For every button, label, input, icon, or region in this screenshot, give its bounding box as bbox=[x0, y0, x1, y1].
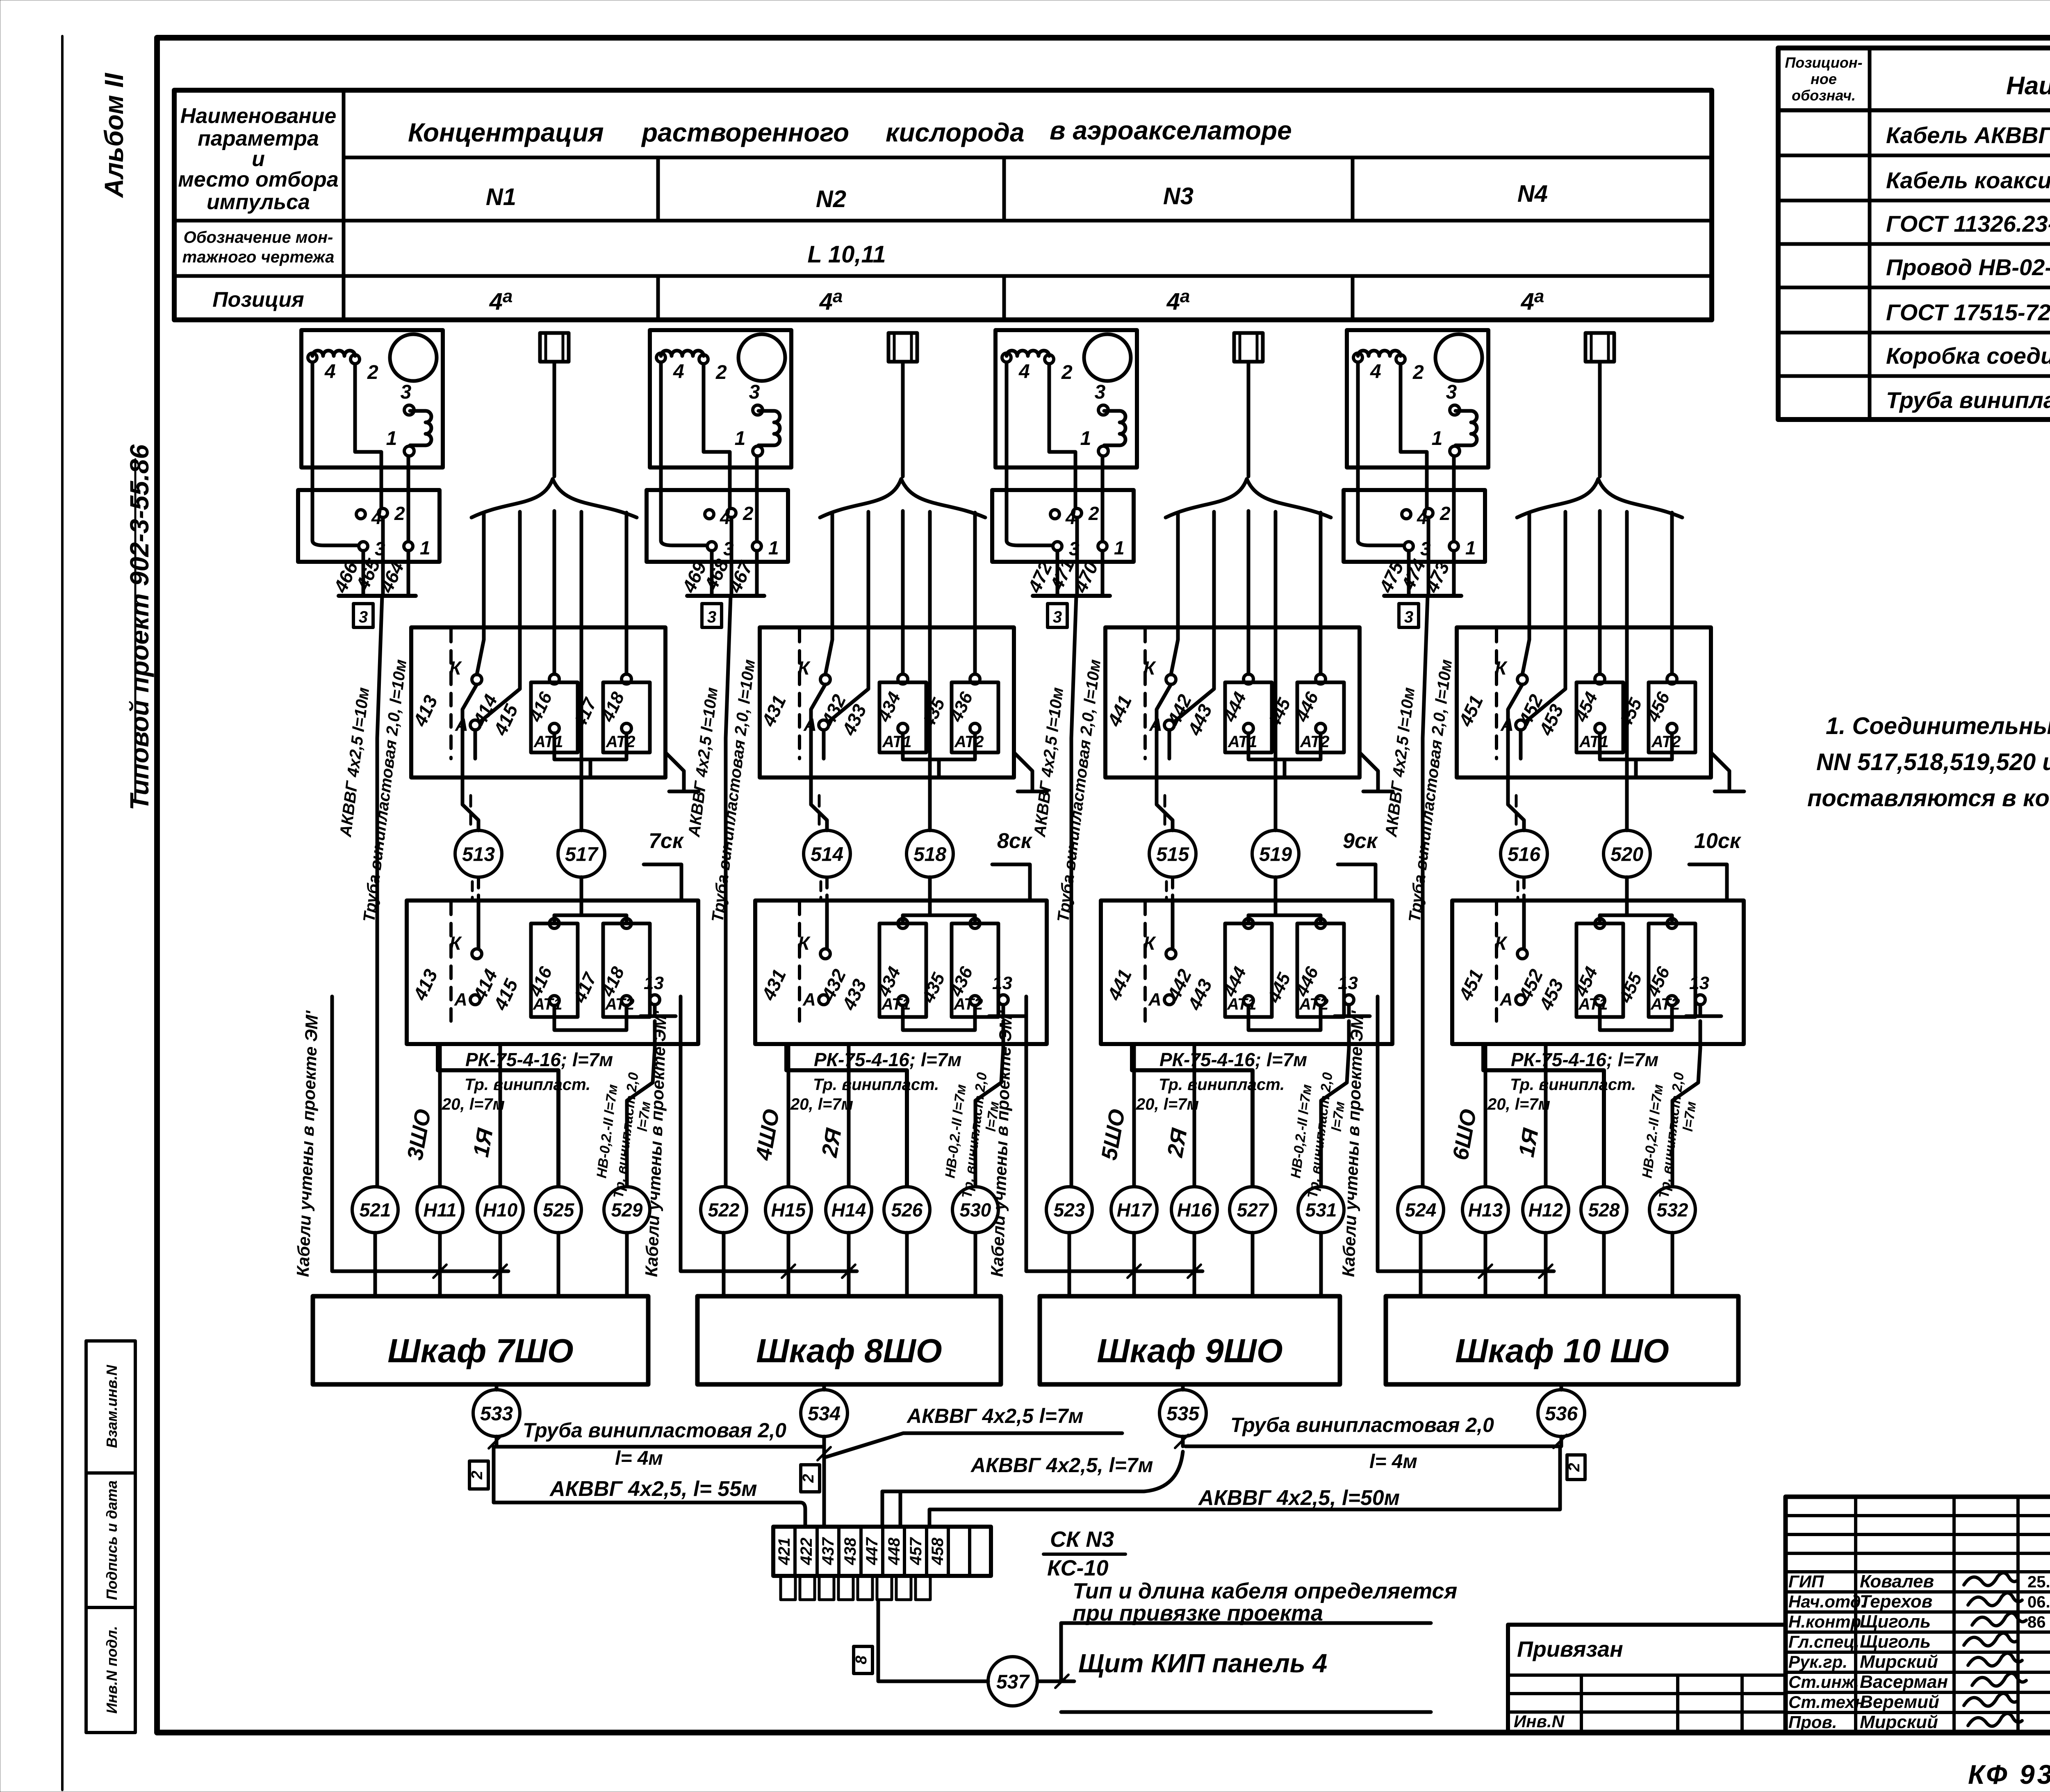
svg-text:Позиция: Позиция bbox=[212, 288, 304, 312]
svg-text:Н17: Н17 bbox=[1117, 1199, 1153, 1221]
svg-text:место отбора: место отбора bbox=[178, 168, 338, 192]
svg-text:растворенного: растворенного bbox=[641, 118, 849, 147]
marker box 3 bbox=[1399, 604, 1419, 627]
svg-text:Кабели учтены в проекте ЭМ': Кабели учтены в проекте ЭМ' bbox=[987, 1010, 1016, 1277]
wire to 529 bbox=[627, 1021, 655, 1186]
svg-text:N1: N1 bbox=[486, 184, 516, 210]
wire to 525 coax bbox=[438, 1044, 558, 1186]
svg-text:518: 518 bbox=[913, 844, 946, 865]
svg-text:1Я: 1Я bbox=[469, 1126, 498, 1159]
wire 467 bbox=[755, 551, 759, 596]
internal wires upper box bbox=[1157, 684, 1171, 777]
svg-text:Кабели учтены в проекте ЭМ': Кабели учтены в проекте ЭМ' bbox=[293, 1010, 322, 1277]
indicator 514 bbox=[804, 830, 850, 877]
relay AT1 lower bbox=[1225, 923, 1272, 1017]
wire K path lower bbox=[825, 901, 829, 949]
box pin 3 bbox=[359, 542, 368, 551]
wire K path lower bbox=[1171, 901, 1175, 949]
sensor terminal 4 bbox=[1353, 353, 1362, 362]
connector box 10ск upper bbox=[1457, 627, 1711, 777]
svg-text:РК-75-4-16; l=7м: РК-75-4-16; l=7м bbox=[1511, 1049, 1658, 1070]
sensor terminal 1 bbox=[1450, 446, 1460, 456]
svg-text:422: 422 bbox=[797, 1538, 815, 1566]
relay AT1 upper bbox=[531, 682, 578, 752]
internal wires upper box bbox=[462, 684, 477, 777]
internal wires upper box bbox=[1508, 684, 1522, 777]
svg-text:1Я: 1Я bbox=[1514, 1126, 1543, 1159]
wire cabinet to 536 bbox=[1560, 1384, 1563, 1390]
wire to earth tee bbox=[1711, 752, 1729, 791]
svg-text:РК-75-4-16; l=7м: РК-75-4-16; l=7м bbox=[465, 1049, 613, 1070]
wire to 532 bbox=[1672, 1021, 1700, 1186]
svg-text:Кабель АКВВГ4х2,5, ГОСТ 1508: Кабель АКВВГ4х2,5, ГОСТ 1508-78 bbox=[1886, 122, 2050, 148]
svg-text:импульса: импульса bbox=[207, 190, 310, 214]
title block signatures table bbox=[1786, 1497, 2050, 1733]
wire to Н12 bbox=[1544, 1044, 1548, 1186]
wire 464 bbox=[407, 551, 410, 596]
sensor coil winding bbox=[661, 351, 704, 356]
wire 441 dashed bbox=[1143, 629, 1147, 759]
svg-text:Типовой проект 902-3-55.86: Типовой проект 902-3-55.86 bbox=[125, 445, 154, 811]
svg-text:Щиголь: Щиголь bbox=[1860, 1632, 1931, 1652]
junction box of sensor N3 bbox=[992, 490, 1134, 562]
wire 527 to cabinet bbox=[1251, 1233, 1255, 1296]
cable spread brace bbox=[820, 479, 985, 518]
svg-text:Провод НВ-02-II-500: Провод НВ-02-II-500 bbox=[1886, 254, 2050, 280]
svg-text:ГОСТ 11326.23-79: ГОСТ 11326.23-79 bbox=[1886, 211, 2050, 237]
wire cabinet to 534 bbox=[822, 1384, 826, 1390]
sensor meter dial bbox=[390, 334, 437, 381]
svg-text:527: 527 bbox=[1237, 1199, 1269, 1221]
wire 529 to cabinet bbox=[625, 1233, 629, 1296]
svg-text:2: 2 bbox=[1440, 503, 1451, 524]
indicator 526 bbox=[884, 1187, 930, 1233]
wire 474 bbox=[1427, 518, 1430, 596]
wire drop 2 bbox=[829, 512, 868, 722]
svg-text:20, l=7м: 20, l=7м bbox=[1487, 1095, 1550, 1113]
wire 532 to cabinet bbox=[1671, 1233, 1674, 1296]
box pin 2 bbox=[1073, 508, 1082, 518]
svg-text:521: 521 bbox=[360, 1199, 391, 1221]
svg-text:2Я: 2Я bbox=[1163, 1126, 1192, 1159]
sensor terminal 1 bbox=[753, 446, 763, 456]
svg-text:413: 413 bbox=[409, 692, 442, 730]
svg-text:529: 529 bbox=[611, 1199, 643, 1221]
svg-text:3: 3 bbox=[1095, 381, 1106, 403]
wire Н13 to cabinet bbox=[1484, 1233, 1487, 1296]
svg-text:3ШО: 3ШО bbox=[403, 1107, 436, 1162]
svg-text:533: 533 bbox=[480, 1403, 513, 1425]
svg-text:514: 514 bbox=[811, 844, 843, 865]
svg-text:А: А bbox=[1499, 989, 1513, 1010]
svg-text:Мирский: Мирский bbox=[1860, 1712, 1938, 1732]
svg-text:Ковалев: Ковалев bbox=[1860, 1571, 1934, 1591]
wire K path lower bbox=[1522, 901, 1526, 949]
box pin 4 bbox=[705, 510, 714, 519]
indicator 528 bbox=[1581, 1187, 1627, 1233]
wire drop 4 bbox=[928, 512, 932, 830]
svg-text:АКВВГ 4х2,5, l=7м: АКВВГ 4х2,5, l=7м bbox=[970, 1454, 1153, 1477]
internal wires upper box bbox=[811, 684, 825, 777]
junction box of sensor N4 bbox=[1344, 490, 1485, 562]
connection box 9ск lower bbox=[1101, 901, 1392, 1044]
wire to earth tee bbox=[1360, 752, 1378, 791]
svg-text:АТ2: АТ2 bbox=[1300, 733, 1330, 751]
svg-text:КФ 9390-02: КФ 9390-02 bbox=[1968, 1759, 2050, 1790]
svg-text:532: 532 bbox=[1657, 1199, 1688, 1221]
box pin 2 bbox=[1424, 508, 1433, 518]
svg-text:3: 3 bbox=[359, 608, 368, 626]
wire 517 to lower box bbox=[580, 877, 583, 915]
wire collector bar bbox=[1033, 594, 1110, 598]
sensor inner coil bbox=[1104, 411, 1125, 445]
svg-text:519: 519 bbox=[1259, 844, 1292, 865]
wire to 531 bbox=[1321, 1021, 1349, 1186]
wire 468 bbox=[730, 518, 733, 596]
wire cabinet to 533 bbox=[495, 1384, 499, 1390]
marker box 3 bbox=[1048, 604, 1067, 627]
svg-text:Подпись и дата: Подпись и дата bbox=[103, 1480, 120, 1600]
sensor inner coil bbox=[758, 411, 780, 445]
svg-text:КС-10: КС-10 bbox=[1047, 1556, 1109, 1580]
wire 534 drop bbox=[822, 1436, 826, 1527]
svg-text:РК-75-4-16; l=7м: РК-75-4-16; l=7м bbox=[814, 1049, 961, 1070]
wire sensor-4 to box pin 3 bbox=[1007, 363, 1052, 545]
wire drop 4 bbox=[1274, 512, 1278, 830]
svg-text:441: 441 bbox=[1103, 692, 1136, 730]
sensor terminal 3 bbox=[1098, 405, 1108, 415]
sheet edge line left bbox=[61, 36, 64, 1790]
svg-text:6ШО: 6ШО bbox=[1448, 1107, 1481, 1162]
wire 514 to lower box dashed bbox=[825, 877, 829, 901]
svg-text:1: 1 bbox=[1114, 537, 1125, 559]
svg-text:А: А bbox=[802, 989, 816, 1010]
svg-text:537: 537 bbox=[996, 1671, 1030, 1693]
wire collector bar bbox=[339, 594, 416, 598]
wire to Н14 bbox=[847, 1044, 851, 1186]
svg-text:451: 451 bbox=[1454, 966, 1487, 1003]
indicator 524 bbox=[1398, 1187, 1444, 1233]
rail cables noted in EM project bbox=[332, 996, 508, 1271]
svg-text:3: 3 bbox=[1404, 608, 1413, 626]
indicator Н17 bbox=[1111, 1187, 1157, 1233]
indicator 523 bbox=[1046, 1187, 1092, 1233]
svg-text:Наименование: Наименование bbox=[2006, 72, 2050, 100]
svg-text:435: 435 bbox=[918, 970, 949, 1006]
svg-text:Н14: Н14 bbox=[831, 1199, 866, 1221]
svg-text:АКВВГ 4х2,5 l=10м: АКВВГ 4х2,5 l=10м bbox=[1031, 686, 1067, 838]
svg-text:3: 3 bbox=[749, 381, 760, 403]
wire to 527 coax bbox=[1132, 1044, 1253, 1186]
wire 537 to panel bbox=[1037, 1680, 1074, 1683]
relay AT1 lower bbox=[1576, 923, 1623, 1017]
wire 536 drop bbox=[1560, 1436, 1563, 1446]
svg-text:Рук.гр.: Рук.гр. bbox=[1788, 1652, 1847, 1671]
indicator Н13 bbox=[1462, 1187, 1508, 1233]
wire collector bar bbox=[1384, 594, 1461, 598]
cabinet Шкаф 9ШО bbox=[1040, 1296, 1340, 1384]
wire to Н15 bbox=[787, 1044, 790, 1186]
wire to indicator 513 bbox=[462, 777, 478, 830]
privyazan table bbox=[1508, 1625, 1786, 1733]
svg-text:441: 441 bbox=[1103, 966, 1136, 1003]
internal wires lower box bbox=[1248, 915, 1321, 923]
svg-text:1: 1 bbox=[1080, 428, 1091, 449]
wire Н16 to cabinet bbox=[1193, 1233, 1196, 1296]
svg-text:Взам.инв.N: Взам.инв.N bbox=[103, 1365, 120, 1448]
relay AT1 upper bbox=[1576, 682, 1623, 752]
wire to Н16 bbox=[1193, 1044, 1196, 1186]
wire 431 lower dashed bbox=[798, 902, 801, 1025]
svg-text:06.: 06. bbox=[2027, 1593, 2050, 1611]
svg-text:Инв.N: Инв.N bbox=[1514, 1712, 1565, 1731]
cabinet Шкаф 8ШО bbox=[697, 1296, 1001, 1384]
wire sensor-1 to box pin 1 bbox=[1452, 456, 1456, 541]
sensor unit N4 (oxygen probe) bbox=[1339, 330, 1744, 1296]
box pin 3 bbox=[707, 542, 716, 551]
wire 519 to lower box bbox=[1274, 877, 1278, 915]
cable drop marker bbox=[888, 333, 917, 362]
svg-text:448: 448 bbox=[885, 1537, 903, 1565]
rail cables noted in EM project bbox=[1378, 996, 1554, 1271]
svg-text:Тип и длина кабеля определяетс: Тип и длина кабеля определяется bbox=[1073, 1579, 1457, 1603]
svg-text:2: 2 bbox=[1088, 503, 1099, 524]
svg-text:l=7м: l=7м bbox=[1680, 1101, 1699, 1132]
svg-text:Шкаф 9ШО: Шкаф 9ШО bbox=[1097, 1332, 1282, 1370]
connector box 9ск upper bbox=[1105, 627, 1360, 777]
wire sensor-4 to box pin 3 bbox=[661, 363, 707, 545]
svg-text:РК-75-4-16; l=7м: РК-75-4-16; l=7м bbox=[1159, 1049, 1307, 1070]
svg-text:Н10: Н10 bbox=[483, 1199, 518, 1221]
indicator 520 bbox=[1604, 830, 1650, 877]
svg-text:Мирский: Мирский bbox=[1860, 1652, 1938, 1672]
long wire from junction bar bbox=[726, 596, 731, 1186]
svg-text:522: 522 bbox=[708, 1199, 740, 1221]
svg-text:3: 3 bbox=[1446, 381, 1457, 403]
indicator Н11 bbox=[417, 1187, 463, 1233]
wire 531 to cabinet bbox=[1319, 1233, 1323, 1296]
wire to Н17 bbox=[1132, 1044, 1136, 1186]
svg-text:520: 520 bbox=[1610, 844, 1643, 865]
indicator 533 bbox=[473, 1390, 520, 1436]
svg-text:523: 523 bbox=[1054, 1199, 1085, 1221]
svg-text:АТ2: АТ2 bbox=[1651, 733, 1681, 751]
svg-text:Н15: Н15 bbox=[771, 1199, 806, 1221]
wire drop 2 bbox=[1526, 512, 1565, 722]
sensor coil winding bbox=[1358, 351, 1401, 356]
wire drop 2 bbox=[1174, 512, 1214, 722]
panel Schit KIP label box bbox=[1061, 1623, 1431, 1681]
sensor terminal 2 bbox=[1396, 355, 1405, 364]
wire cabinet to 535 bbox=[1181, 1384, 1185, 1390]
svg-text:3: 3 bbox=[707, 608, 716, 626]
svg-text:Н11: Н11 bbox=[424, 1199, 457, 1221]
sensor terminal 4 bbox=[656, 353, 665, 362]
svg-text:АКВВГ 4х2,5 l=10м: АКВВГ 4х2,5 l=10м bbox=[337, 686, 373, 838]
svg-text:АКВВГ 4х2,5, l= 55м: АКВВГ 4х2,5, l= 55м bbox=[549, 1477, 757, 1501]
svg-text:525: 525 bbox=[543, 1199, 575, 1221]
wire from drop marker bbox=[1247, 362, 1250, 476]
wire 528 to cabinet bbox=[1602, 1233, 1606, 1296]
connection box 10ск lower bbox=[1452, 901, 1744, 1044]
sensor terminal 3 bbox=[753, 405, 763, 415]
svg-text:Кабели учтены в проекте ЭМ': Кабели учтены в проекте ЭМ' bbox=[642, 1010, 670, 1277]
svg-text:АТ1: АТ1 bbox=[1579, 733, 1609, 751]
indicator 530 bbox=[952, 1187, 998, 1233]
rail cables noted in EM project bbox=[681, 996, 857, 1271]
wire drop 1 bbox=[1171, 513, 1178, 675]
svg-text:4ШО: 4ШО bbox=[751, 1107, 784, 1162]
svg-text:1. Соединительные коробки: 1. Соединительные коробки 7СК ÷ 10СК, пр… bbox=[1826, 713, 2050, 739]
sensor terminal 2 bbox=[699, 355, 708, 364]
connection box 8ск lower bbox=[755, 901, 1047, 1044]
wire collector bar bbox=[687, 594, 764, 598]
svg-text:528: 528 bbox=[1588, 1199, 1620, 1221]
svg-text:АКВВГ 4х2,5 l=10м: АКВВГ 4х2,5 l=10м bbox=[685, 686, 721, 838]
svg-text:1: 1 bbox=[386, 428, 397, 449]
svg-text:438: 438 bbox=[841, 1537, 859, 1565]
sensor meter dial bbox=[1435, 334, 1482, 381]
cabinet Шкаф 10 ШО bbox=[1386, 1296, 1738, 1384]
svg-text:413: 413 bbox=[409, 966, 442, 1004]
svg-text:1: 1 bbox=[768, 537, 779, 559]
svg-text:N4: N4 bbox=[1517, 180, 1548, 207]
cabinet Шкаф 7ШО bbox=[313, 1296, 648, 1384]
svg-text:2: 2 bbox=[1412, 362, 1424, 383]
svg-text:455: 455 bbox=[1615, 970, 1646, 1006]
svg-text:2: 2 bbox=[367, 362, 378, 383]
wire drop 3 bbox=[901, 511, 905, 674]
wire drop 5 bbox=[973, 513, 977, 674]
box pin 1 bbox=[752, 542, 761, 551]
svg-text:l= 4м: l= 4м bbox=[615, 1448, 663, 1469]
wire 413 lower dashed bbox=[449, 902, 453, 1025]
svg-text:2: 2 bbox=[743, 503, 754, 524]
marker box 2 mid bbox=[801, 1465, 820, 1492]
wire to 526 coax bbox=[786, 1044, 907, 1186]
wire 466 bbox=[362, 551, 365, 596]
svg-text:Васерман: Васерман bbox=[1860, 1672, 1948, 1692]
indicator Н15 bbox=[765, 1187, 811, 1233]
svg-text:437: 437 bbox=[819, 1537, 837, 1565]
wire Н17 to cabinet bbox=[1132, 1233, 1136, 1296]
indicator 537 bbox=[988, 1657, 1037, 1706]
material list table bbox=[1778, 48, 2050, 420]
cable spread brace bbox=[471, 479, 637, 518]
trunk pipe rail left top bbox=[494, 1445, 822, 1449]
rail cables noted in EM project bbox=[1026, 996, 1203, 1271]
svg-text:Ст.техн.: Ст.техн. bbox=[1788, 1692, 1870, 1712]
wire 470 bbox=[1101, 551, 1105, 596]
svg-text:534: 534 bbox=[808, 1403, 840, 1425]
svg-text:Гл.спец.: Гл.спец. bbox=[1788, 1632, 1859, 1651]
svg-text:L 10,11: L 10,11 bbox=[807, 241, 886, 268]
svg-text:Щиголь: Щиголь bbox=[1860, 1612, 1931, 1632]
svg-text:N3: N3 bbox=[1163, 183, 1194, 210]
svg-text:2: 2 bbox=[1061, 362, 1073, 383]
trunk cable rail right bbox=[929, 1446, 1560, 1527]
indicator 521 bbox=[352, 1187, 398, 1233]
sensor terminal 1 bbox=[1098, 446, 1108, 456]
svg-text:1: 1 bbox=[735, 428, 746, 449]
wire 522 to cabinet bbox=[722, 1233, 726, 1296]
svg-text:455: 455 bbox=[1615, 695, 1646, 732]
svg-text:435: 435 bbox=[918, 695, 949, 732]
svg-text:10ск: 10ск bbox=[1694, 829, 1742, 853]
svg-text:Труба винипластовая 2,0: Труба винипластовая 2,0 bbox=[1230, 1414, 1494, 1436]
marker box 2 right bbox=[1567, 1455, 1585, 1480]
svg-text:А: А bbox=[454, 989, 467, 1010]
wire drop 1 bbox=[1522, 513, 1529, 675]
indicator Н14 bbox=[826, 1187, 872, 1233]
sensor unit N1 (oxygen probe) bbox=[293, 330, 699, 1296]
svg-text:447: 447 bbox=[863, 1537, 881, 1565]
svg-text:ГИП: ГИП bbox=[1788, 1572, 1824, 1591]
junction box of sensor N1 bbox=[298, 490, 440, 562]
svg-text:445: 445 bbox=[1264, 970, 1295, 1006]
junction box of sensor N2 bbox=[647, 490, 788, 562]
wire 451 dashed bbox=[1495, 629, 1498, 759]
wire sensor-1 to box pin 1 bbox=[1101, 456, 1105, 541]
svg-text:9ск: 9ск bbox=[1343, 829, 1378, 853]
svg-text:Привязан: Привязан bbox=[1517, 1637, 1623, 1662]
wire drop 4 bbox=[1625, 512, 1629, 830]
terminal strip lower stubs bbox=[781, 1576, 795, 1600]
svg-text:3: 3 bbox=[401, 381, 412, 403]
internal wires lower box bbox=[1600, 915, 1672, 923]
svg-text:13: 13 bbox=[1338, 973, 1358, 993]
svg-text:445: 445 bbox=[1264, 695, 1295, 732]
indicator 535 bbox=[1159, 1390, 1206, 1436]
svg-text:Наименование: Наименование bbox=[180, 104, 337, 128]
long wire from junction bar bbox=[1071, 596, 1076, 1186]
svg-text:3: 3 bbox=[1053, 608, 1062, 626]
wire from drop marker bbox=[1598, 362, 1602, 476]
wire sensor-2 to box pin 2 bbox=[1401, 364, 1427, 508]
svg-text:2: 2 bbox=[1566, 1463, 1583, 1472]
svg-text:8ск: 8ск bbox=[997, 829, 1033, 853]
indicator 519 bbox=[1252, 830, 1299, 877]
svg-text:513: 513 bbox=[462, 844, 495, 865]
wire to Н10 bbox=[499, 1044, 502, 1186]
wire sensor-1 to box pin 1 bbox=[407, 456, 410, 541]
relay AT2 upper bbox=[1649, 682, 1695, 752]
svg-text:Н13: Н13 bbox=[1468, 1199, 1503, 1221]
wire to earth tee bbox=[1014, 752, 1032, 791]
wire drop 4 bbox=[580, 512, 583, 830]
svg-text:Н12: Н12 bbox=[1528, 1199, 1563, 1221]
svg-text:Нач.отд.: Нач.отд. bbox=[1788, 1592, 1865, 1611]
indicator 513 bbox=[455, 830, 502, 877]
svg-text:1: 1 bbox=[420, 537, 430, 559]
svg-text:Тр. винипласт.: Тр. винипласт. bbox=[1510, 1076, 1636, 1094]
indicator Н12 bbox=[1523, 1187, 1569, 1233]
svg-text:536: 536 bbox=[1545, 1403, 1578, 1425]
sensor terminal 4 bbox=[308, 353, 317, 362]
svg-text:Позицион-: Позицион- bbox=[1785, 54, 1862, 71]
box pin 1 bbox=[404, 542, 413, 551]
svg-text:20, l=7м: 20, l=7м bbox=[790, 1095, 853, 1113]
wire 451 lower dashed bbox=[1495, 902, 1498, 1025]
wire 469 bbox=[710, 551, 714, 596]
connection box 7ск lower bbox=[407, 901, 698, 1044]
svg-text:Кабель коаксиальный РК-75-4-: Кабель коаксиальный РК-75-4-16 bbox=[1886, 167, 2050, 193]
svg-text:N2: N2 bbox=[816, 186, 846, 212]
wire Н12 to cabinet bbox=[1544, 1233, 1548, 1296]
svg-text:535: 535 bbox=[1166, 1403, 1200, 1425]
connector box 7ск upper bbox=[411, 627, 665, 777]
wire sensor-2 to box pin 2 bbox=[355, 364, 381, 508]
